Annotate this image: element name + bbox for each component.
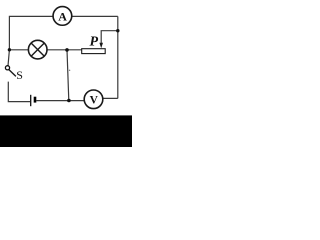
- junction node: left wire / lamp row: [8, 48, 11, 51]
- battery short thick plate: [34, 97, 37, 103]
- svg-text:S: S: [16, 68, 23, 82]
- wire: top wire from top-left corner to top-right corner: [9, 16, 117, 49]
- switch S blade: [9, 70, 16, 77]
- switch S pivot circle: [5, 66, 9, 70]
- wire: bottom wire battery to voltmeter: [36, 100, 86, 102]
- svg-text:A: A: [58, 10, 67, 24]
- voltmeter V circle: [84, 90, 103, 109]
- scan speck near middle wire: [69, 70, 70, 71]
- rheostat wiper arrowhead: [99, 43, 103, 48]
- black crop bar at bottom: [0, 115, 132, 147]
- wire: left vertical down to switch pivot: [8, 50, 9, 66]
- junction node: lamp row / middle vertical: [65, 48, 69, 52]
- junction node: bottom wire / middle vertical: [67, 99, 71, 103]
- battery long plate: [30, 95, 32, 106]
- junction node: right vertical / wiper branch: [116, 29, 119, 32]
- svg-text:P: P: [90, 34, 99, 49]
- wire: voltmeter to right vertical: [101, 97, 118, 99]
- wire: switch lower lead: [8, 82, 30, 102]
- wire: lamp row: [9, 49, 81, 51]
- rheostat P body: [82, 49, 106, 54]
- lamp (circle with X): [28, 40, 47, 59]
- ammeter A1 circle: [53, 7, 72, 26]
- wire: middle vertical wire: [67, 50, 69, 101]
- wire: right vertical wire: [117, 16, 119, 98]
- wire: rheostat wiper branch: [101, 31, 118, 44]
- svg-text:V: V: [90, 95, 99, 107]
